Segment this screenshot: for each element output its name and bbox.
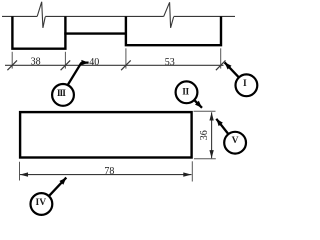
balloon I (236, 74, 258, 96)
balloon V leader (216, 119, 228, 134)
dim line 78 (20, 174, 192, 176)
thin top line of bar, left segment (2, 15, 37, 17)
svg-text:40: 40 (89, 57, 99, 68)
balloon II (176, 81, 198, 103)
extension line x=126 (125, 48, 127, 68)
middle slot bottom (40 wide) (64, 32, 127, 34)
svg-text:36: 36 (199, 130, 210, 140)
ext line right of rect bottom (194, 158, 216, 160)
svg-text:I: I (243, 79, 247, 89)
svg-text:IV: IV (36, 198, 47, 208)
svg-text:V: V (232, 136, 239, 146)
bottom rectangle (20, 112, 192, 157)
ext line below rect left (19, 162, 21, 181)
svg-text:III: III (57, 89, 66, 99)
extension line x=65 (64, 52, 66, 69)
tick 4 (216, 60, 226, 70)
thin top line, right segment (174, 15, 235, 17)
right slot outline (53 wide) (126, 16, 221, 45)
svg-text:53: 53 (165, 57, 175, 68)
tick 1 (7, 60, 17, 70)
svg-text:38: 38 (31, 57, 41, 68)
left slot outline (38 wide) (12, 16, 65, 48)
tick 2 (61, 60, 71, 70)
svg-text:78: 78 (104, 166, 114, 177)
thin top line, middle segment (45, 15, 164, 17)
break symbol 2 (164, 2, 174, 28)
balloon IV (31, 193, 53, 215)
balloon V (224, 132, 246, 154)
ext line right of rect top (194, 110, 216, 112)
svg-text:II: II (182, 87, 189, 97)
extension line x=12 (11, 52, 13, 69)
ext line below rect right (191, 161, 193, 181)
dimension line top (5, 64, 224, 66)
balloon IV leader (49, 178, 66, 197)
dim line 36 vertical (211, 112, 213, 158)
balloon II leader (194, 100, 202, 108)
balloon III leader (67, 63, 88, 86)
break symbol 1 (37, 2, 45, 28)
extension line x=221 (220, 48, 222, 68)
balloon I leader (225, 62, 239, 77)
tick 3 (121, 60, 131, 70)
balloon III (52, 84, 74, 106)
